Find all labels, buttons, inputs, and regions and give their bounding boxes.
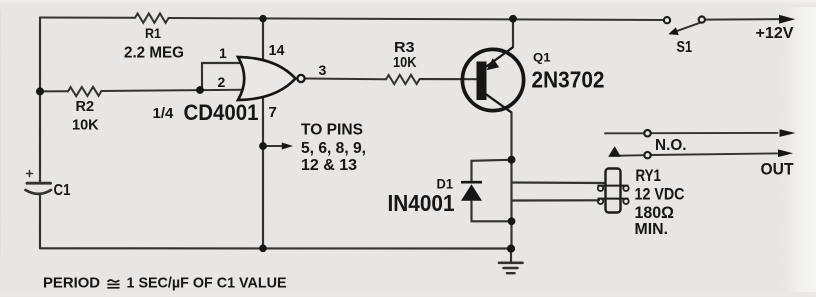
svg-text:R3: R3 [394,40,415,56]
svg-text:TO PINS: TO PINS [301,122,363,139]
svg-text:180Ω: 180Ω [635,204,675,222]
svg-text:2N3702: 2N3702 [532,67,605,93]
svg-text:N.O.: N.O. [655,137,687,154]
svg-text:1 SEC/µF OF C1 VALUE: 1 SEC/µF OF C1 VALUE [127,275,287,292]
svg-text:7: 7 [269,104,277,121]
svg-text:CD4001: CD4001 [184,100,259,125]
svg-text:10K: 10K [72,117,99,134]
svg-text:12 VDC: 12 VDC [635,186,685,204]
svg-text:IN4001: IN4001 [388,190,455,216]
svg-text:C1: C1 [54,182,71,199]
svg-text:PERIOD: PERIOD [43,275,100,292]
svg-text:5, 6, 8, 9,: 5, 6, 8, 9, [301,140,366,157]
svg-text:RY1: RY1 [636,167,662,185]
svg-text:14: 14 [269,42,286,59]
svg-text:3: 3 [319,62,327,78]
svg-text:Q1: Q1 [533,50,551,64]
svg-text:12 & 13: 12 & 13 [301,157,357,174]
svg-text:R1: R1 [145,25,161,41]
svg-text:R2: R2 [76,99,95,115]
svg-text:2: 2 [218,74,226,90]
svg-text:S1: S1 [677,39,693,56]
svg-text:+12V: +12V [756,25,794,42]
svg-text:1/4: 1/4 [153,105,175,122]
svg-text:MIN.: MIN. [635,221,669,238]
svg-text:2.2 MEG: 2.2 MEG [124,45,184,62]
svg-text:1: 1 [219,45,227,61]
svg-text:10K: 10K [393,55,417,71]
svg-text:OUT: OUT [761,160,794,178]
